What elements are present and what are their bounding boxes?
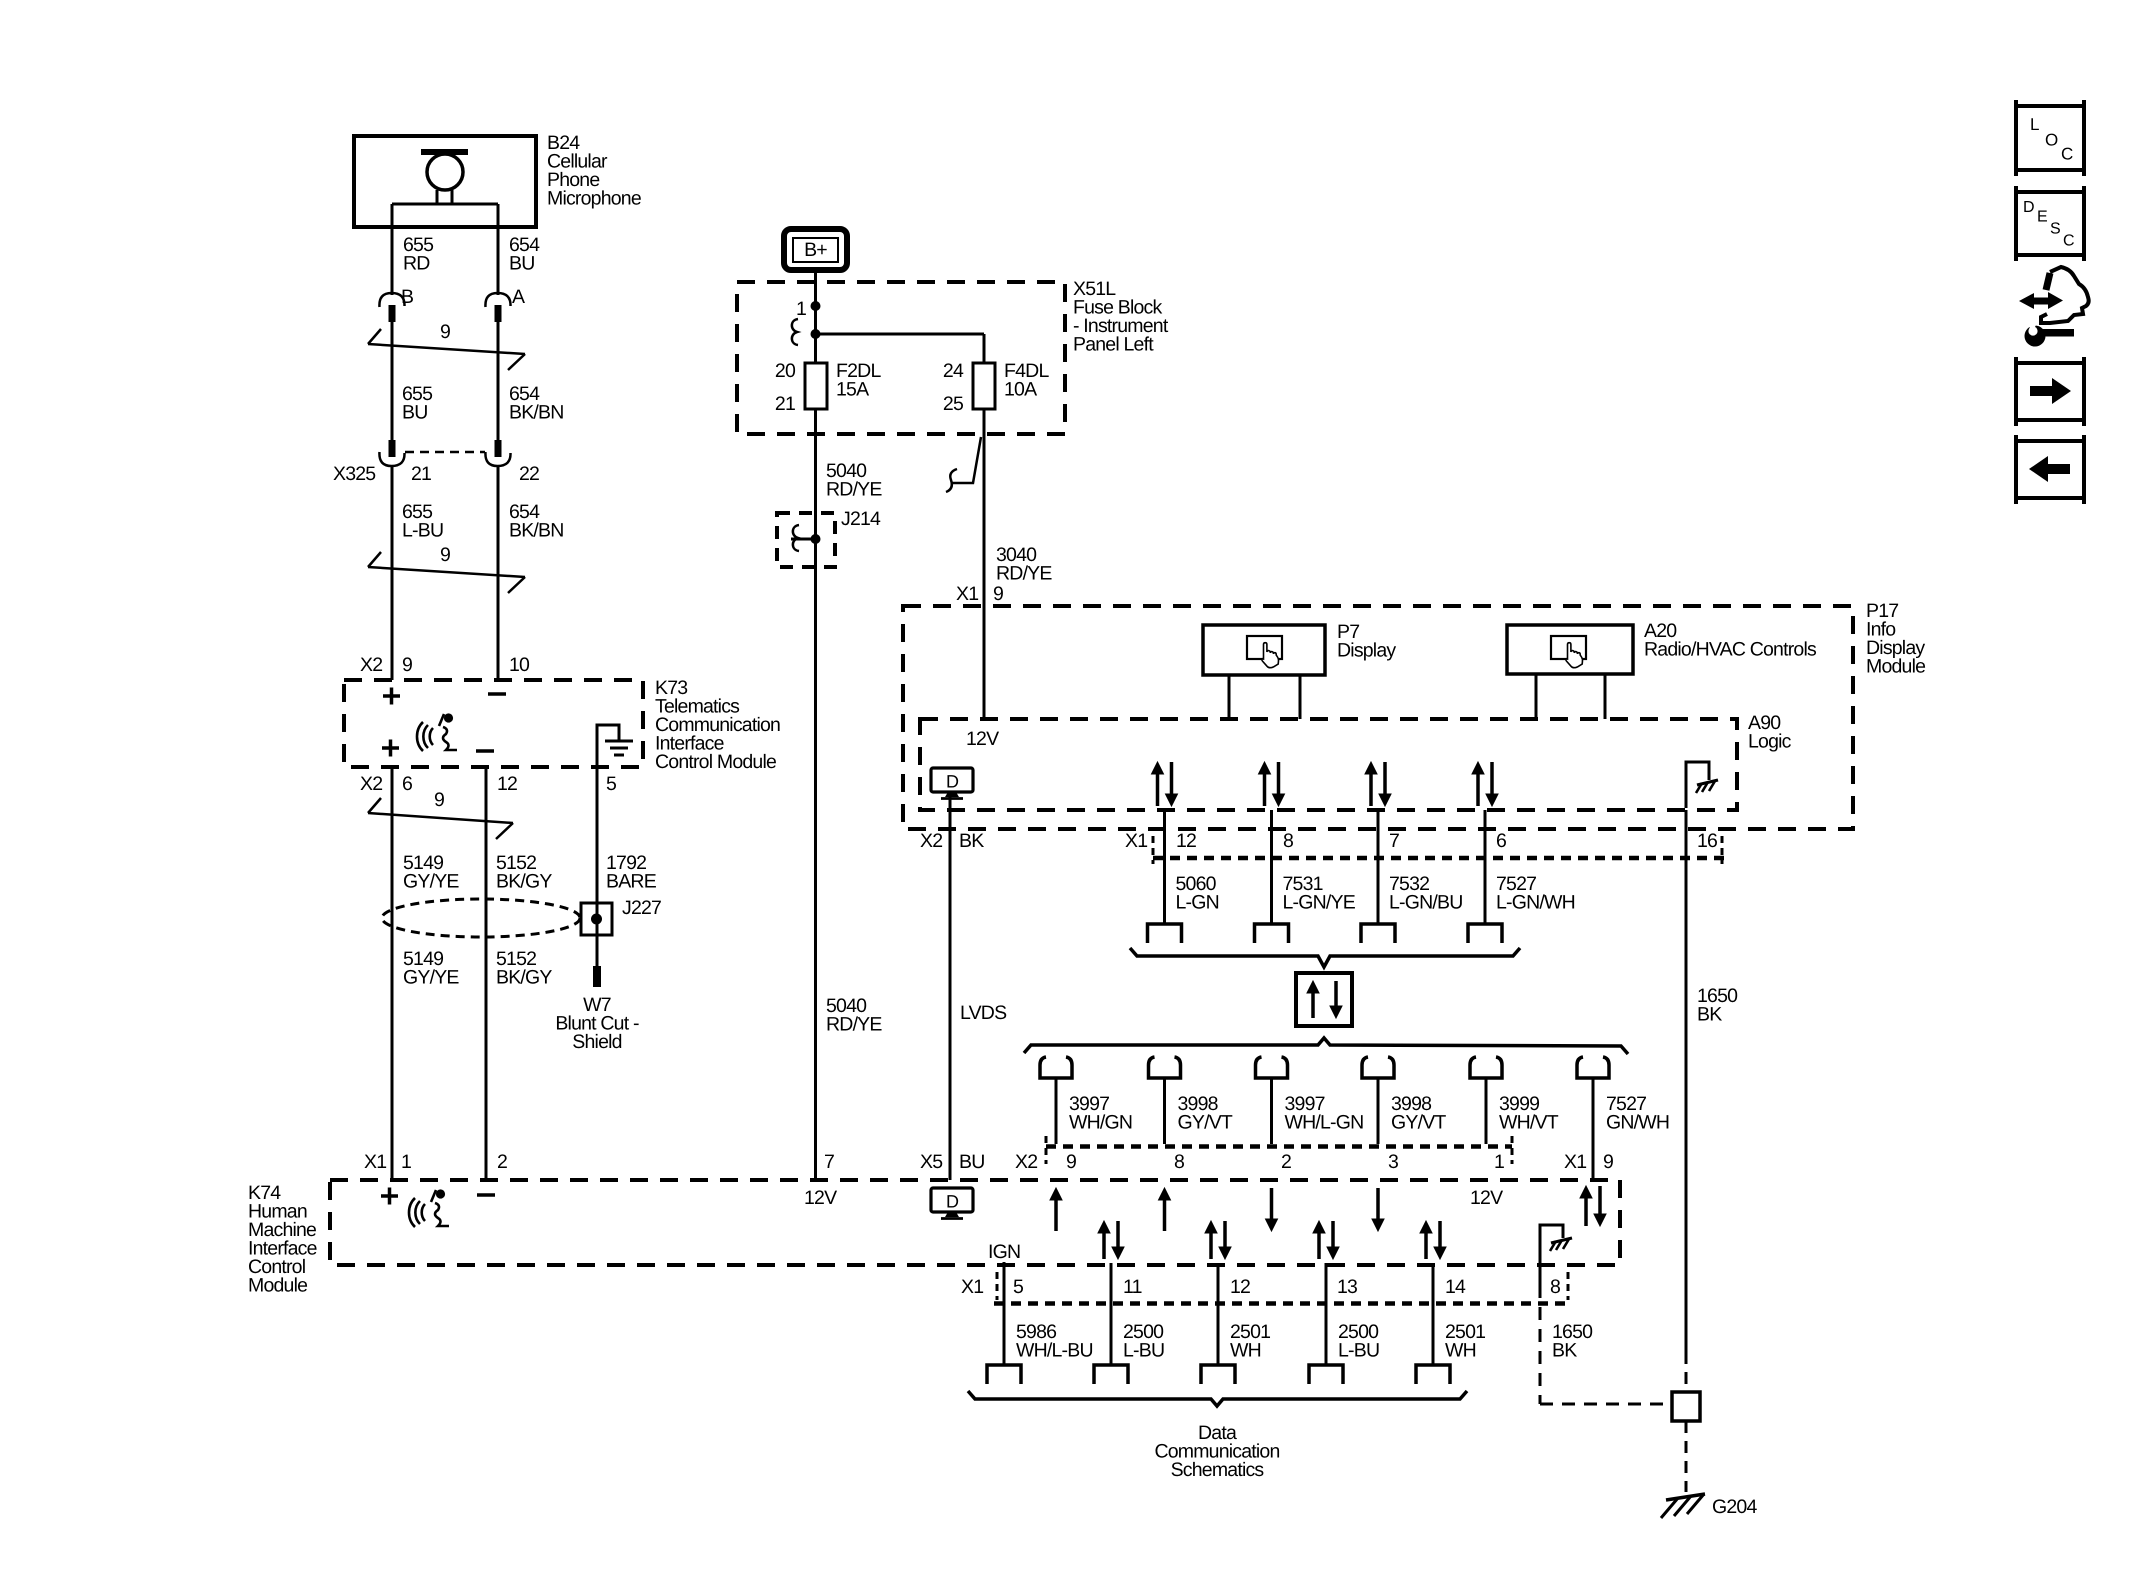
node 1 junction dot xyxy=(796,298,821,320)
ground hook symbol inside K74 at pin 8 xyxy=(1540,1225,1572,1298)
svg-text:GY/VT: GY/VT xyxy=(1178,1112,1233,1134)
off-page connector fork for wire 2501 xyxy=(1416,1365,1450,1384)
label 2501 WH xyxy=(1230,1321,1270,1362)
wire 1792 BARE shield drain from K73 pin 5 xyxy=(596,767,599,966)
svg-text:WH/GN: WH/GN xyxy=(1069,1112,1132,1134)
svg-text:L-GN/YE: L-GN/YE xyxy=(1283,892,1356,914)
label F4DL 10A xyxy=(1004,360,1049,401)
svg-text:25: 25 xyxy=(943,393,964,415)
svg-text:L-GN/BU: L-GN/BU xyxy=(1389,892,1463,914)
label X51L Fuse Block - Instrument Panel Left xyxy=(1073,278,1169,356)
label 5986 WH/L-BU xyxy=(1016,1321,1093,1362)
label P17 Info Display Module xyxy=(1866,600,1925,678)
svg-text:12V: 12V xyxy=(966,728,999,750)
fuse F2DL pin labels 20 21 xyxy=(775,360,796,415)
arrows up down inside K74 below X1 pin 9 xyxy=(1580,1186,1606,1226)
svg-text:GY/VT: GY/VT xyxy=(1391,1112,1446,1134)
serial data arrows pin 6 inside A90 xyxy=(1472,762,1498,806)
svg-text:GY/YE: GY/YE xyxy=(403,967,459,989)
microphone person icon inside K74 xyxy=(409,1189,449,1227)
svg-text:X1: X1 xyxy=(956,583,978,605)
label 5040 RD/YE lower xyxy=(826,995,882,1036)
svg-text:5: 5 xyxy=(1013,1276,1024,1298)
svg-text:BK/GY: BK/GY xyxy=(496,871,552,893)
wire 3040 RD/YE from fuse F4DL to P17 X1 pin 9 xyxy=(983,409,986,719)
svg-text:IGN: IGN xyxy=(988,1241,1020,1263)
label 7532 L-GN/BU xyxy=(1389,873,1463,914)
component P7 Display box with touch icon xyxy=(1203,625,1325,675)
svg-text:8: 8 xyxy=(1550,1276,1560,1298)
wire 654 BU from B24 pin A xyxy=(497,227,500,295)
label W7 Blunt Cut - Shield xyxy=(555,994,639,1053)
wires from A20 to A90 xyxy=(1536,674,1605,719)
label A90 Logic xyxy=(1748,712,1792,753)
display input D icon inside K74 xyxy=(931,1188,973,1219)
svg-text:Display: Display xyxy=(1337,640,1396,662)
fuse F4DL 10A xyxy=(973,363,995,409)
svg-text:A: A xyxy=(512,286,525,308)
in-line connector half for wire 3998 GY/VT xyxy=(1149,1057,1181,1078)
label K74 Human Machine Interface Control Module xyxy=(248,1182,317,1297)
label 655 L-BU xyxy=(402,501,443,542)
svg-text:BARE: BARE xyxy=(606,871,657,893)
svg-text:12V: 12V xyxy=(804,1187,837,1209)
arrows up down inside K74 above X1 pin 13 xyxy=(1313,1221,1339,1259)
LOC navigation box xyxy=(2016,100,2084,176)
splice box on ground wire xyxy=(1672,1392,1700,1421)
serial data arrows pin 8 inside A90 xyxy=(1259,762,1285,806)
svg-text:B+: B+ xyxy=(804,239,827,261)
wire LVDS from A90 D icon to K74 X5 xyxy=(949,796,952,1180)
svg-text:BU: BU xyxy=(509,253,535,275)
connector X2 pin 6 label below K73 xyxy=(360,773,412,795)
svg-text:RD/YE: RD/YE xyxy=(996,563,1052,585)
svg-text:BK: BK xyxy=(1552,1340,1577,1362)
wire 3999 WH/VT to K74 xyxy=(1485,1078,1488,1144)
svg-text:20: 20 xyxy=(775,360,796,382)
label 3040 RD/YE xyxy=(996,544,1052,585)
svg-text:D: D xyxy=(946,772,959,792)
svg-text:RD/YE: RD/YE xyxy=(826,479,882,501)
label 5060 L-GN xyxy=(1176,873,1219,914)
fuse F2DL 15A xyxy=(805,363,827,409)
in-line connector half for wire 3997 WH/GN xyxy=(1040,1057,1072,1078)
arrows up down inside K74 above X1 pin 12 xyxy=(1205,1221,1231,1259)
wire 1650 BK dashed segment above splice box xyxy=(1685,1352,1688,1392)
wire 5060 L-GN from P17 xyxy=(1163,810,1166,924)
svg-text:X325: X325 xyxy=(333,463,376,485)
wire 655 RD from B24 pin B xyxy=(391,227,394,295)
in-line connector X325 terminal 21 xyxy=(379,440,404,466)
svg-text:11: 11 xyxy=(1123,1276,1142,1298)
svg-text:13: 13 xyxy=(1337,1276,1357,1298)
svg-text:9: 9 xyxy=(1603,1151,1613,1173)
wire 7527 L-GN/WH from P17 xyxy=(1484,810,1487,924)
label 5152 BK/GY lower xyxy=(496,948,552,989)
svg-text:L-BU: L-BU xyxy=(1123,1340,1164,1362)
svg-text:Module: Module xyxy=(1866,656,1925,678)
svg-text:BK: BK xyxy=(1697,1004,1722,1026)
svg-text:RD: RD xyxy=(403,253,430,275)
svg-text:Panel Left: Panel Left xyxy=(1073,334,1154,356)
svg-text:14: 14 xyxy=(1445,1276,1466,1298)
connector X1 strip of P17 with pin labels 12 8 7 6 16 xyxy=(1125,830,1724,864)
svg-text:WH/L-BU: WH/L-BU xyxy=(1016,1340,1093,1362)
splice J214 dashed box xyxy=(777,513,835,567)
label 2501 WH xyxy=(1445,1321,1485,1362)
label 5149 GY/YE lower xyxy=(403,948,459,989)
svg-text:WH/VT: WH/VT xyxy=(1499,1112,1559,1134)
svg-text:E: E xyxy=(2037,209,2048,226)
svg-text:12: 12 xyxy=(1176,830,1196,852)
svg-text:BU: BU xyxy=(402,402,428,424)
svg-text:6: 6 xyxy=(1496,830,1506,852)
DESC navigation box xyxy=(2016,186,2084,261)
svg-text:BK: BK xyxy=(959,830,984,852)
wire 5152 BK/GY from K73 pin 12 xyxy=(485,767,488,1180)
svg-text:2: 2 xyxy=(497,1151,507,1173)
svg-text:16: 16 xyxy=(1697,830,1717,852)
minus sign inside K74 xyxy=(477,1193,495,1197)
terminal pigtail symbol on wire 3040 xyxy=(946,437,981,492)
svg-text:C: C xyxy=(2061,145,2073,164)
label 3997 WH/L-GN xyxy=(1285,1093,1364,1134)
splice J214 clip and junction dot xyxy=(791,525,821,551)
W7 blunt cut shield end xyxy=(593,966,601,987)
fuse block X51L dashed box xyxy=(737,282,1065,434)
connector X325 dashed link xyxy=(405,451,485,454)
svg-text:LVDS: LVDS xyxy=(960,1002,1007,1024)
svg-text:Control Module: Control Module xyxy=(655,751,776,773)
wire 7527 GN/WH to K74 xyxy=(1592,1078,1595,1144)
svg-text:X2: X2 xyxy=(360,773,382,795)
back arrow navigation box xyxy=(2016,435,2084,504)
wire 654 BK/BN segment xyxy=(497,322,500,441)
wire dashed from splice box to ground G204 xyxy=(1685,1421,1688,1492)
svg-text:BU: BU xyxy=(959,1151,985,1173)
earth ground symbol inside K73 xyxy=(597,725,633,765)
svg-text:1: 1 xyxy=(1494,1151,1504,1173)
label 7531 L-GN/YE xyxy=(1283,873,1356,914)
svg-text:10A: 10A xyxy=(1004,379,1037,401)
splice clip symbol at node 1 xyxy=(792,319,798,345)
connector X1 pin 9 label at K74 right xyxy=(1564,1151,1613,1173)
display output D icon inside A90 xyxy=(931,768,973,799)
svg-text:Radio/HVAC Controls: Radio/HVAC Controls xyxy=(1644,639,1817,661)
svg-text:D: D xyxy=(2023,199,2035,216)
svg-text:9: 9 xyxy=(1066,1151,1076,1173)
svg-text:X2: X2 xyxy=(360,654,382,676)
svg-text:9: 9 xyxy=(993,583,1003,605)
plus sign inside K74 xyxy=(381,1188,398,1205)
svg-text:7: 7 xyxy=(1389,830,1399,852)
svg-text:22: 22 xyxy=(519,463,539,485)
arrow down inside K74 below X2 pin 3 xyxy=(1372,1188,1384,1231)
svg-text:7: 7 xyxy=(824,1151,834,1173)
svg-text:D: D xyxy=(946,1192,959,1212)
svg-text:21: 21 xyxy=(411,463,431,485)
svg-text:9: 9 xyxy=(402,654,412,676)
svg-text:O: O xyxy=(2045,131,2058,150)
svg-text:12: 12 xyxy=(1230,1276,1250,1298)
wire 654 BK/BN lower segment xyxy=(497,466,500,680)
label P7 Display xyxy=(1337,621,1396,662)
svg-text:WH/L-GN: WH/L-GN xyxy=(1285,1112,1364,1134)
minus sign top inside K73 xyxy=(488,692,506,696)
wire 2500 L-BU from K74 bottom xyxy=(1110,1263,1113,1365)
label 654 BK/BN xyxy=(509,383,564,424)
svg-text:21: 21 xyxy=(775,393,795,415)
wire from B+ into fuse block xyxy=(814,270,817,363)
label 2500 L-BU xyxy=(1123,1321,1164,1362)
off-page connector fork for wire 5986 xyxy=(987,1365,1021,1384)
wires from P7 Display to A90 xyxy=(1229,675,1300,719)
label F2DL 15A xyxy=(836,360,881,401)
svg-text:L: L xyxy=(2030,115,2039,134)
label 2500 L-BU xyxy=(1338,1321,1379,1362)
twisted pair symbol lower with label 9 xyxy=(368,544,525,593)
svg-text:X2: X2 xyxy=(1015,1151,1037,1173)
svg-text:24: 24 xyxy=(943,360,964,382)
svg-text:X5: X5 xyxy=(920,1151,943,1173)
svg-text:J214: J214 xyxy=(841,508,881,530)
svg-text:Shield: Shield xyxy=(572,1031,621,1053)
svg-text:15A: 15A xyxy=(836,379,869,401)
splice J227 shield ellipse xyxy=(382,899,580,937)
in-line connector half for wire 3998 GY/VT xyxy=(1362,1057,1394,1078)
wire 7532 L-GN/BU from P17 xyxy=(1377,810,1380,924)
label 3998 GY/VT xyxy=(1178,1093,1233,1134)
wire 3997 WH/GN to K74 xyxy=(1055,1078,1058,1144)
minus sign bottom inside K73 xyxy=(476,749,494,753)
svg-text:J227: J227 xyxy=(622,897,661,919)
label A20 Radio/HVAC Controls xyxy=(1644,620,1817,661)
module P17 Info Display Module dashed box xyxy=(903,606,1853,829)
svg-text:12: 12 xyxy=(497,773,517,795)
brace grouping data communication wires xyxy=(968,1391,1467,1406)
svg-text:L-GN/WH: L-GN/WH xyxy=(1496,892,1575,914)
label 654 BU xyxy=(509,234,540,275)
arrow down inside K74 below X2 pin 2 xyxy=(1266,1188,1278,1231)
svg-text:Schematics: Schematics xyxy=(1171,1459,1265,1481)
svg-text:9: 9 xyxy=(440,544,450,566)
off-page connector fork for wire 7531 xyxy=(1255,924,1289,943)
wire 7527 lower segment into K74 X1 pin 9 xyxy=(1592,1144,1595,1180)
label 7527 GN/WH xyxy=(1606,1093,1669,1134)
svg-text:1: 1 xyxy=(796,298,806,320)
wire 5149 GY/YE from K73 pin 6 xyxy=(391,767,394,1180)
forward arrow navigation box xyxy=(2016,357,2084,426)
off-page connector fork for wire 2501 xyxy=(1201,1365,1235,1384)
svg-text:L-BU: L-BU xyxy=(1338,1340,1379,1362)
logic block A90 dashed box inside P17 xyxy=(920,719,1737,810)
label K73 Telematics Communication Interface Control Module xyxy=(655,677,780,773)
svg-text:Logic: Logic xyxy=(1748,731,1792,753)
wire 2500 L-BU from K74 bottom xyxy=(1325,1263,1328,1365)
svg-text:L-GN: L-GN xyxy=(1176,892,1219,914)
microphone person icon inside K73 xyxy=(417,713,457,751)
wire 2501 WH from K74 bottom xyxy=(1432,1263,1435,1365)
svg-text:X2: X2 xyxy=(920,830,942,852)
label 1650 BK bottom xyxy=(1552,1321,1593,1362)
splice J227 box with junction dot xyxy=(581,903,612,935)
connector terminal on wire 654 at pin A xyxy=(485,293,510,322)
component B24 Cellular Phone Microphone box xyxy=(354,136,536,227)
off-page connector fork for wire 2500 xyxy=(1094,1365,1128,1384)
label 1792 BARE xyxy=(606,852,657,893)
svg-text:5: 5 xyxy=(606,773,617,795)
label Data Communication Schematics xyxy=(1154,1422,1279,1481)
in-line connector X325 terminal 22 xyxy=(485,440,510,466)
label 655 BU xyxy=(402,383,433,424)
label 3999 WH/VT xyxy=(1499,1093,1559,1134)
wire 12V feed inside P17 xyxy=(983,606,986,719)
svg-text:BK/GY: BK/GY xyxy=(496,967,552,989)
microphone symbol inside B24 xyxy=(392,152,498,227)
svg-text:GN/WH: GN/WH xyxy=(1606,1112,1669,1134)
in-line connector half for wire 3997 WH/L-GN xyxy=(1256,1057,1288,1078)
svg-text:8: 8 xyxy=(1174,1151,1184,1173)
in-line connector half for wire 7527 GN/WH xyxy=(1577,1057,1609,1078)
svg-text:X1: X1 xyxy=(1125,830,1147,852)
twisted pair symbol below K73 with label 9 xyxy=(368,789,513,839)
vehicle diagnostic icon with arrows and wrench xyxy=(2019,267,2089,347)
serial data arrows pin 7 inside A90 xyxy=(1365,762,1391,806)
svg-text:L-BU: L-BU xyxy=(402,520,443,542)
label 3997 WH/GN xyxy=(1069,1093,1132,1134)
connector X2 strip of K74 with pin labels 9 8 2 3 1 xyxy=(1015,1136,1512,1173)
svg-text:9: 9 xyxy=(434,789,444,811)
svg-text:10: 10 xyxy=(509,654,530,676)
svg-text:X1: X1 xyxy=(1564,1151,1586,1173)
svg-text:9: 9 xyxy=(440,321,450,343)
wire 5986 WH/L-BU from K74 bottom xyxy=(1003,1262,1006,1365)
svg-text:BK/BN: BK/BN xyxy=(509,520,564,542)
wire 1650 BK from P17 pin 16 xyxy=(1685,810,1688,1352)
wire 3997 WH/L-GN to K74 xyxy=(1270,1078,1273,1144)
wire 3998 GY/VT to K74 xyxy=(1377,1078,1380,1144)
brace from data bus to harness wires xyxy=(1024,1038,1628,1054)
module K73 dashed box xyxy=(344,680,643,767)
svg-text:WH: WH xyxy=(1445,1340,1476,1362)
off-page connector fork for wire 5060 xyxy=(1148,924,1182,943)
ground G204 symbol xyxy=(1661,1494,1705,1518)
connector X5 BU pin label at K74 xyxy=(920,1151,985,1173)
brace grouping serial wires to data bus xyxy=(1130,948,1520,967)
label 5040 RD/YE upper xyxy=(826,460,882,501)
label 1650 BK xyxy=(1697,985,1738,1026)
arrows up down inside K74 above X1 pin 14 xyxy=(1420,1221,1446,1259)
connector X2 BK pin label below A90 xyxy=(920,830,984,852)
wire 655 BU segment xyxy=(391,322,394,441)
off-page connector fork for wire 2500 xyxy=(1309,1365,1343,1384)
in-line connector half for wire 3999 WH/VT xyxy=(1470,1057,1502,1078)
svg-text:2: 2 xyxy=(1281,1151,1291,1173)
off-page connector fork for wire 7527 xyxy=(1468,924,1502,943)
connector terminal on wire 655 at pin B xyxy=(379,293,404,322)
svg-text:G204: G204 xyxy=(1712,1496,1757,1518)
serial data arrows pin 12 inside A90 xyxy=(1152,762,1178,806)
label 5152 BK/GY upper xyxy=(496,852,552,893)
arrow up inside K74 below X2 pin 8 xyxy=(1159,1188,1171,1231)
component A20 Radio/HVAC Controls box with touch icon xyxy=(1507,625,1633,674)
branch wire to fuse F4DL with junction dot xyxy=(811,329,985,363)
off-page connector fork for wire 7532 xyxy=(1361,924,1395,943)
connector X1 pin 1 label at K74 xyxy=(364,1151,411,1173)
label 655 RD xyxy=(403,234,434,275)
twisted pair symbol upper with label 9 xyxy=(368,321,525,370)
wire 655 L-BU segment xyxy=(391,466,394,680)
svg-text:3: 3 xyxy=(1388,1151,1398,1173)
wire 5040 RD/YE from fuse F2DL to K74 pin 7 xyxy=(814,409,817,1180)
svg-text:Module: Module xyxy=(248,1275,307,1297)
svg-text:1: 1 xyxy=(401,1151,411,1173)
svg-text:S: S xyxy=(2050,221,2061,238)
label 7527 L-GN/WH xyxy=(1496,873,1575,914)
plus sign bottom inside K73 xyxy=(382,740,399,757)
svg-text:RD/YE: RD/YE xyxy=(826,1014,882,1036)
fuse F4DL pin labels 24 25 xyxy=(943,360,964,415)
svg-text:BK/BN: BK/BN xyxy=(509,402,564,424)
svg-text:6: 6 xyxy=(402,773,412,795)
svg-text:GY/YE: GY/YE xyxy=(403,871,459,893)
wire 7531 L-GN/YE from P17 xyxy=(1270,810,1273,924)
wire 3998 GY/VT to K74 xyxy=(1163,1078,1166,1144)
arrow up inside K74 below X2 pin 9 xyxy=(1050,1188,1062,1231)
svg-text:8: 8 xyxy=(1283,830,1293,852)
label 5149 GY/YE upper xyxy=(403,852,459,893)
bidirectional data bus symbol box xyxy=(1296,973,1352,1026)
label B24 Cellular Phone Microphone xyxy=(547,132,641,210)
label 3998 GY/VT xyxy=(1391,1093,1446,1134)
svg-text:C: C xyxy=(2063,233,2075,250)
connector X2 pin 9 label at K73 xyxy=(360,654,412,676)
arrows up down inside K74 above X1 pin 11 xyxy=(1098,1221,1124,1259)
connector X1 pin 9 label at P17 xyxy=(956,583,1003,605)
svg-text:X1: X1 xyxy=(961,1276,983,1298)
svg-text:X1: X1 xyxy=(364,1151,386,1173)
power feed symbol B+ xyxy=(784,229,847,270)
label 654 BK/BN lower xyxy=(509,501,564,542)
wire 1650 BK dashed from K74 pin 8 xyxy=(1540,1307,1670,1404)
connector X1 strip bottom of K74 with pin labels 5 11 12 13 14 8 xyxy=(961,1272,1570,1304)
ground hook symbol inside A90 at pin 16 xyxy=(1686,762,1718,808)
svg-text:WH: WH xyxy=(1230,1340,1261,1362)
plus sign top inside K73 xyxy=(383,688,400,705)
svg-text:12V: 12V xyxy=(1470,1187,1503,1209)
wire 2501 WH from K74 bottom xyxy=(1217,1263,1220,1365)
module K74 Human Machine Interface Control Module dashed box xyxy=(330,1180,1620,1265)
svg-text:Microphone: Microphone xyxy=(547,188,641,210)
